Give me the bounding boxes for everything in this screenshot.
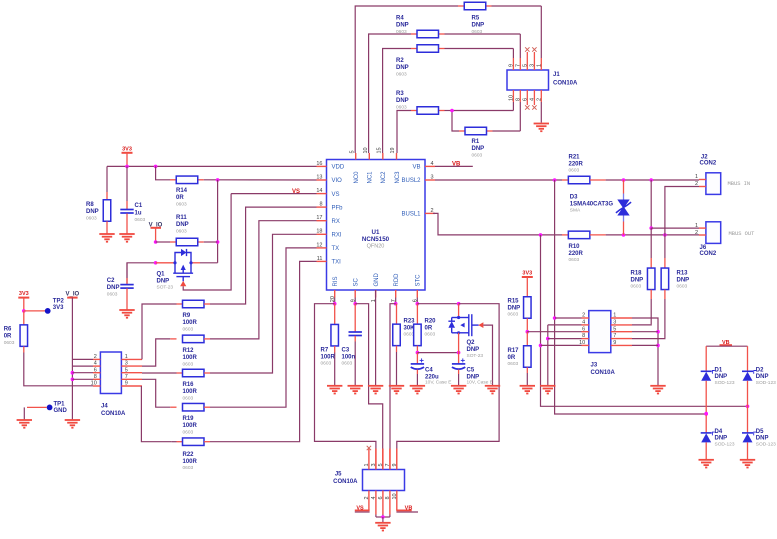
resistor R4 (396, 16, 445, 38)
no-connect x J1 pin4 (532, 105, 536, 109)
svg-text:0603: 0603 (396, 29, 407, 35)
svg-text:14: 14 (316, 188, 322, 194)
svg-text:R17: R17 (508, 348, 520, 354)
wire R6 to J4 pin10 (24, 353, 93, 386)
resistor R18 DNP (631, 228, 655, 324)
svg-text:R13: R13 (677, 271, 689, 277)
wire net VDD row (107, 165, 317, 169)
svg-text:0603: 0603 (404, 332, 415, 338)
connector J6 CON2 (695, 222, 755, 257)
capacitor C5 DNP (452, 353, 493, 386)
svg-text:R21: R21 (569, 155, 581, 161)
resistor R19 100R (170, 403, 210, 435)
svg-text:NC0: NC0 (354, 171, 360, 184)
svg-text:0R: 0R (508, 355, 516, 361)
svg-text:7: 7 (125, 374, 128, 380)
svg-text:C2: C2 (107, 278, 115, 284)
svg-text:16: 16 (316, 161, 322, 167)
resistor R6 0R (4, 311, 28, 353)
svg-text:CON10A: CON10A (333, 479, 358, 485)
svg-text:100R: 100R (183, 389, 198, 395)
power symbol VB at diodes (706, 340, 747, 346)
ground under V_IO line (65, 420, 80, 428)
svg-text:R6: R6 (4, 327, 12, 333)
svg-text:0603: 0603 (677, 284, 688, 290)
svg-text:R20: R20 (425, 319, 437, 325)
transistor Q2 (MOSFET with body diode) (448, 304, 483, 359)
svg-text:3V3: 3V3 (522, 271, 532, 277)
ground under C5 (451, 386, 466, 394)
svg-text:SOD-123: SOD-123 (715, 441, 735, 447)
svg-text:VIO: VIO (332, 178, 343, 184)
resistor R14 0R (170, 176, 204, 207)
svg-text:R16: R16 (183, 382, 195, 388)
connector J4 CON10A (91, 352, 142, 417)
svg-text:0603: 0603 (342, 361, 353, 367)
wire R20 to C5 row (417, 351, 460, 355)
wire J4 pin9 to R22 (141, 386, 171, 442)
resistor R11 (156, 215, 218, 246)
svg-text:C5: C5 (467, 368, 475, 374)
svg-text:R3: R3 (396, 91, 404, 97)
svg-text:4: 4 (431, 161, 434, 167)
svg-text:MBUS OUT: MBUS OUT (729, 231, 756, 237)
ground under J3 pins4/8 (540, 386, 555, 394)
svg-text:0603: 0603 (135, 217, 146, 223)
wire Q1 gate to VS (183, 194, 231, 290)
svg-text:R18: R18 (631, 271, 643, 277)
no-connect x J1 pin6 (525, 105, 529, 109)
wire VDD to R14 branch (156, 166, 170, 179)
wire J3 pin10 from BUSL1 (541, 344, 582, 346)
resistor R7 (321, 304, 339, 386)
resistor R9 100R (177, 300, 211, 332)
svg-text:15: 15 (377, 147, 383, 153)
svg-text:SOT-23: SOT-23 (467, 353, 484, 359)
svg-text:4: 4 (582, 320, 585, 326)
svg-text:BUSL1: BUSL1 (401, 212, 421, 218)
svg-text:DNP: DNP (508, 306, 521, 312)
wire net STC (397, 298, 499, 470)
svg-text:8: 8 (582, 333, 585, 339)
wire net SC (353, 298, 382, 470)
svg-text:0603: 0603 (183, 430, 194, 436)
svg-text:10V, Case E: 10V, Case E (467, 380, 494, 386)
svg-text:R12: R12 (183, 348, 195, 354)
svg-text:6: 6 (522, 98, 528, 101)
svg-text:5: 5 (378, 463, 384, 466)
svg-text:7: 7 (385, 463, 391, 466)
wire net RIS (315, 298, 376, 470)
svg-text:0603: 0603 (396, 72, 407, 78)
wire net RDD (390, 298, 398, 470)
wire net BUSL1 row (433, 213, 699, 236)
wire net VIO row (204, 178, 317, 182)
ground under C2 (119, 310, 134, 318)
svg-text:3: 3 (613, 320, 616, 326)
ground under R23 (389, 386, 404, 394)
wire Q2 source row (458, 333, 460, 353)
svg-text:0603: 0603 (4, 340, 15, 346)
resistor R23 (393, 304, 415, 386)
svg-text:VS: VS (292, 189, 300, 195)
svg-text:VS: VS (356, 505, 364, 511)
no-connect x J1 pin3 (532, 47, 536, 51)
svg-text:9: 9 (392, 463, 398, 466)
svg-text:0603: 0603 (508, 361, 519, 367)
svg-text:3V3: 3V3 (19, 291, 29, 297)
svg-text:R14: R14 (176, 188, 188, 194)
wire R15/R17 junction to J3 pin6 (527, 331, 581, 333)
wire U1 GND pin to ground (375, 290, 377, 386)
svg-text:0603: 0603 (183, 327, 194, 333)
svg-text:NCN5150: NCN5150 (362, 236, 390, 243)
svg-text:DNP: DNP (756, 374, 769, 380)
svg-text:1: 1 (613, 313, 616, 319)
svg-text:DNP: DNP (157, 278, 170, 284)
svg-text:VS: VS (332, 192, 340, 198)
svg-text:VB: VB (412, 165, 420, 171)
svg-text:0603: 0603 (183, 465, 194, 471)
svg-text:1u: 1u (135, 211, 142, 217)
svg-text:100R: 100R (183, 459, 198, 465)
wire net NC1/R4 row (369, 34, 521, 153)
wire BUSL2 branch down to J3 pin2 and diodes (553, 180, 708, 416)
wire J1 pin2 to ground (540, 102, 542, 123)
wire BUSL1 branch down to J3 pin10 and diodes (539, 235, 750, 408)
ground under R8 (99, 234, 114, 242)
svg-text:TX: TX (332, 246, 340, 252)
svg-text:5: 5 (125, 367, 128, 373)
svg-text:C3: C3 (342, 348, 350, 354)
svg-text:10: 10 (91, 381, 97, 387)
svg-text:5: 5 (522, 64, 528, 67)
svg-text:220u: 220u (425, 375, 439, 381)
resistor R15 DNP (508, 297, 532, 334)
svg-text:SOD-123: SOD-123 (715, 380, 735, 386)
svg-text:R11: R11 (176, 215, 187, 221)
svg-text:U1: U1 (372, 229, 380, 236)
svg-text:1: 1 (364, 463, 370, 466)
svg-text:0603: 0603 (176, 229, 187, 235)
svg-text:10V, Case E: 10V, Case E (425, 380, 452, 386)
transistor Q1 (MOSFET with body diode) (157, 249, 194, 290)
svg-text:QFN20: QFN20 (367, 244, 385, 250)
resistor R10 220R (562, 231, 606, 263)
svg-text:5: 5 (613, 326, 616, 332)
svg-text:CON2: CON2 (700, 251, 717, 257)
svg-text:D2: D2 (756, 368, 764, 374)
wire Q2 gate to ground (483, 325, 492, 385)
svg-text:0603: 0603 (396, 105, 407, 111)
wire V_IO vertical to J4 pins (71, 298, 93, 420)
svg-text:3: 3 (431, 174, 434, 180)
svg-text:0R: 0R (4, 334, 12, 340)
svg-text:4: 4 (530, 98, 536, 101)
resistor R21 220R (562, 155, 606, 184)
svg-text:VB: VB (452, 161, 461, 167)
svg-text:R8: R8 (86, 202, 94, 208)
svg-text:VB: VB (722, 340, 730, 346)
wire J4 pin5 to R16 (142, 372, 177, 374)
resistor R3 (396, 91, 445, 114)
svg-text:13: 13 (316, 174, 322, 180)
wire R16 to U1 RXI (210, 234, 317, 373)
svg-text:R22: R22 (183, 452, 195, 458)
svg-text:3: 3 (530, 64, 536, 67)
svg-text:Q1: Q1 (157, 271, 166, 277)
svg-text:8: 8 (319, 202, 322, 208)
capacitor C2 (107, 263, 134, 310)
svg-text:0R: 0R (176, 195, 184, 201)
svg-text:VB: VB (405, 505, 413, 511)
svg-text:Q2: Q2 (467, 340, 476, 346)
svg-text:DNP: DNP (107, 285, 120, 291)
svg-text:3V3: 3V3 (53, 305, 64, 311)
wire J4 pin3 to R12 (142, 339, 170, 366)
svg-text:SC: SC (354, 277, 360, 286)
wire J4 pin7 to R19 (142, 379, 170, 407)
svg-text:3: 3 (371, 463, 377, 466)
resistor R1 (459, 102, 520, 159)
svg-text:1: 1 (695, 174, 698, 180)
svg-text:C4: C4 (425, 368, 433, 374)
diode D4 DNP (701, 412, 735, 460)
svg-text:2: 2 (536, 98, 542, 101)
svg-text:3V3: 3V3 (122, 146, 132, 152)
svg-text:100R: 100R (183, 320, 198, 326)
resistor R12 100R (170, 335, 210, 367)
svg-text:SOD-123: SOD-123 (756, 441, 776, 447)
svg-text:R7: R7 (321, 348, 329, 354)
svg-text:R5: R5 (472, 16, 480, 22)
ground under J1 (534, 124, 549, 132)
svg-text:220R: 220R (569, 251, 584, 257)
svg-text:R15: R15 (508, 299, 520, 305)
svg-text:R9: R9 (183, 313, 191, 319)
wire J3 pin2 from BUSL2 (555, 317, 582, 319)
ground under C1 (119, 234, 134, 242)
capacitor C1 (120, 166, 145, 233)
connector J3 CON10A (579, 311, 632, 376)
wire net NC0/R5 top row (355, 6, 541, 153)
svg-text:0603: 0603 (631, 284, 642, 290)
no-connect x J1 pin5 (525, 47, 529, 51)
svg-text:R4: R4 (396, 16, 404, 22)
svg-text:R10: R10 (569, 244, 581, 250)
svg-text:2: 2 (94, 354, 97, 360)
svg-text:SOT-23: SOT-23 (157, 284, 174, 290)
svg-text:DNP: DNP (756, 436, 769, 442)
svg-text:0603: 0603 (176, 202, 187, 208)
svg-text:D4: D4 (715, 429, 723, 435)
svg-text:J4: J4 (101, 404, 108, 410)
svg-text:7: 7 (515, 64, 521, 67)
svg-text:RIS: RIS (333, 276, 339, 286)
resistor R17 0R (508, 332, 532, 386)
svg-text:DNP: DNP (715, 374, 728, 380)
no-connect x J5 pin1 (367, 446, 371, 450)
svg-text:0603: 0603 (183, 396, 194, 402)
capacitor C3 (342, 304, 362, 386)
svg-text:TP1: TP1 (54, 402, 66, 408)
svg-text:TP2: TP2 (53, 299, 65, 305)
svg-text:9: 9 (613, 340, 616, 346)
wire net VS row (231, 193, 316, 195)
test point TP2 (24, 299, 65, 314)
svg-text:100R: 100R (321, 355, 336, 361)
svg-text:9: 9 (125, 381, 128, 387)
op-amp U1 NCN5150 QFN20 (316, 147, 435, 302)
svg-text:18: 18 (316, 229, 322, 235)
power symbol VB at J5 (396, 505, 418, 512)
resistor R8 (86, 166, 111, 233)
power symbol VS at J5 (355, 505, 370, 512)
svg-text:100R: 100R (183, 355, 198, 361)
svg-text:6: 6 (582, 326, 585, 332)
connector J5 CON10A (333, 449, 404, 523)
connector J2 CON2 (695, 154, 750, 194)
svg-text:DNP: DNP (472, 146, 485, 152)
svg-text:1: 1 (125, 354, 128, 360)
svg-text:0603: 0603 (321, 361, 332, 367)
svg-text:8: 8 (94, 374, 97, 380)
svg-text:10: 10 (363, 147, 369, 153)
capacitor C4 220u (411, 353, 452, 386)
resistor R22 100R (172, 438, 210, 471)
svg-text:DNP: DNP (396, 65, 409, 71)
diode D2 DNP (742, 346, 776, 406)
svg-text:J5: J5 (335, 471, 342, 477)
ground under J3 pins1/5/9 (650, 386, 665, 394)
wire J3 pin7 to R13 (632, 337, 665, 339)
resistor R20 0R (414, 304, 437, 355)
svg-text:0603: 0603 (569, 167, 580, 173)
svg-text:R19: R19 (183, 416, 195, 422)
svg-text:R2: R2 (396, 58, 404, 64)
svg-text:DNP: DNP (86, 209, 99, 215)
svg-text:DNP: DNP (467, 375, 480, 381)
svg-text:J3: J3 (591, 363, 598, 369)
svg-text:0R: 0R (425, 326, 433, 332)
svg-text:BUSL2: BUSL2 (401, 178, 421, 184)
svg-text:DNP: DNP (715, 436, 728, 442)
wire J3 pin4/pin8 to ground (546, 325, 582, 386)
svg-text:3: 3 (125, 361, 128, 367)
resistor R2 (396, 45, 445, 78)
svg-text:VDD: VDD (332, 165, 345, 171)
svg-text:5: 5 (349, 150, 355, 153)
power symbol V_IO (left) (66, 292, 80, 298)
svg-text:C1: C1 (135, 203, 143, 209)
svg-text:SOD-123: SOD-123 (756, 380, 776, 386)
wire net NC2/R2 row (383, 49, 514, 154)
svg-text:PFb: PFb (332, 205, 344, 211)
resistor R13 DNP (661, 235, 689, 338)
ground under U1 GND (368, 386, 383, 394)
svg-text:CON10A: CON10A (591, 370, 616, 376)
svg-text:7: 7 (613, 333, 616, 339)
svg-text:TXI: TXI (332, 260, 342, 266)
svg-text:6: 6 (94, 367, 97, 373)
power symbol 3V3 (left) (18, 291, 29, 313)
resistor R16 100R (177, 369, 211, 401)
wire net NC3/R3 row (397, 102, 513, 153)
svg-text:D3: D3 (570, 195, 578, 201)
test point TP1 (24, 402, 67, 420)
ground under R7 (327, 386, 342, 394)
svg-text:NC3: NC3 (395, 171, 401, 184)
net label VB at U1 pin 4 (435, 161, 473, 167)
wire J2 pin2 to J6 pin2 vertical (665, 187, 699, 236)
svg-text:GND: GND (374, 273, 380, 287)
svg-text:DNP: DNP (467, 347, 480, 353)
ground under TP1 (17, 420, 32, 428)
svg-text:12: 12 (316, 242, 322, 248)
svg-text:J1: J1 (553, 72, 560, 78)
svg-text:SMA: SMA (570, 207, 581, 213)
power symbol 3V3 at R15 (522, 271, 533, 297)
svg-text:17: 17 (316, 215, 322, 221)
svg-text:DNP: DNP (396, 23, 409, 29)
svg-text:CON10A: CON10A (101, 411, 126, 417)
svg-text:CON10A: CON10A (553, 81, 578, 87)
wire J4 pin1 to R9 (142, 304, 177, 359)
svg-text:DNP: DNP (631, 278, 644, 284)
wire J3 pin3 to R18 (632, 323, 651, 326)
power symbol V_IO (upper) (149, 223, 163, 244)
ground under C3 (348, 386, 363, 394)
svg-text:9: 9 (509, 64, 515, 67)
svg-text:0603: 0603 (86, 216, 97, 222)
svg-text:MBUS IN: MBUS IN (728, 181, 751, 187)
svg-text:CON2: CON2 (700, 160, 717, 166)
power symbol 3V3 (top left) (122, 146, 133, 166)
svg-text:0603: 0603 (183, 361, 194, 367)
svg-text:4: 4 (94, 361, 97, 367)
svg-text:100n: 100n (342, 355, 356, 361)
ground under R17 (520, 386, 535, 394)
wire net BUSL2 row (435, 178, 699, 182)
svg-text:10: 10 (509, 95, 515, 101)
svg-text:DNP: DNP (472, 23, 485, 29)
svg-text:NC1: NC1 (368, 171, 374, 184)
wire R12 to U1 RX (210, 221, 317, 339)
svg-text:D1: D1 (715, 368, 723, 374)
wire Q1 row (127, 261, 218, 284)
svg-text:0603: 0603 (107, 291, 118, 297)
svg-text:2: 2 (582, 313, 585, 319)
svg-text:NC2: NC2 (381, 171, 387, 184)
svg-text:2: 2 (695, 230, 698, 236)
ground under D5 (740, 460, 755, 468)
svg-text:RX: RX (332, 219, 340, 225)
svg-text:D5: D5 (756, 429, 764, 435)
svg-text:0603: 0603 (508, 312, 519, 318)
diode D5 DNP (742, 406, 776, 459)
svg-text:8: 8 (515, 98, 521, 101)
svg-text:0603: 0603 (569, 257, 580, 263)
ground under Q2 gate wire (485, 386, 500, 394)
ground under J5 (375, 523, 390, 531)
svg-text:0603: 0603 (425, 332, 436, 338)
svg-text:RXI: RXI (332, 233, 342, 239)
svg-text:DNP: DNP (176, 222, 189, 228)
svg-text:RDD: RDD (394, 273, 400, 287)
svg-text:11: 11 (317, 256, 323, 262)
svg-text:STC: STC (416, 274, 422, 287)
wire J6 pin1 to BUSL2 vertical (649, 180, 699, 230)
